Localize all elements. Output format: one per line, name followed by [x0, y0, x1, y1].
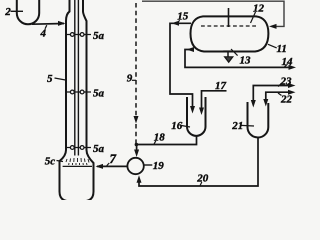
svg-text:5c: 5c — [45, 155, 56, 167]
arrow 15 down into vessel 16 — [190, 106, 195, 114]
label 19 leader — [145, 164, 153, 166]
svg-text:21: 21 — [231, 120, 243, 132]
junction dot — [135, 143, 139, 147]
arrow 14 leftward out of drum — [187, 47, 195, 52]
label 5c leader — [57, 161, 64, 162]
wire line 15 — [170, 23, 193, 109]
label 20 leader — [200, 182, 202, 186]
svg-text:5a: 5a — [93, 143, 105, 155]
svg-text:20: 20 — [196, 173, 209, 185]
arrow feed into drum — [269, 24, 277, 29]
wire line 22 — [266, 92, 292, 102]
wire line 4 — [32, 23, 64, 26]
wire line 18 vertical into pump — [136, 145, 138, 154]
pump circle 19 — [127, 158, 143, 174]
svg-text:12: 12 — [253, 3, 265, 15]
drum liquid level 12 — [201, 25, 257, 27]
label 5 leader — [55, 78, 66, 80]
label 9 leader — [132, 79, 136, 81]
svg-text:23: 23 — [280, 76, 293, 88]
nozzle 5a (middle) — [66, 90, 91, 94]
svg-text:11: 11 — [277, 43, 287, 55]
column inner tube — [75, 0, 79, 156]
arrow 22 right end — [288, 90, 296, 95]
label 7 leader — [107, 163, 109, 166]
svg-text:14: 14 — [282, 56, 294, 68]
arrow line 4 into column — [58, 21, 66, 26]
svg-text:5: 5 — [47, 73, 53, 85]
arrow 23 down into vessel 21 — [251, 100, 256, 108]
svg-text:17: 17 — [215, 80, 227, 92]
vessel 2 — [17, 0, 39, 24]
arrow 23 right end — [288, 83, 296, 88]
wire line 14 — [185, 50, 292, 68]
svg-text:18: 18 — [154, 132, 166, 144]
arrow 20 into pump bottom — [137, 175, 142, 183]
svg-text:2: 2 — [4, 6, 11, 18]
arrowheads — [58, 21, 296, 183]
label 15 leader — [178, 20, 180, 23]
column 5 outer walls — [60, 0, 94, 201]
arrow line 7 into bulb — [96, 164, 104, 169]
svg-text:5a: 5a — [93, 30, 105, 42]
svg-text:9: 9 — [127, 73, 133, 85]
label 4 leader — [45, 25, 47, 29]
label 21 leader — [241, 124, 254, 127]
drum 11 — [191, 16, 269, 51]
nozzle 5a (top) — [66, 33, 91, 37]
svg-text:4: 4 — [40, 28, 47, 40]
feed line top right — [142, 1, 284, 26]
arrow 14 right end — [289, 65, 297, 70]
dashed control line 9 — [135, 3, 137, 117]
spray dots in bulb — [66, 158, 89, 165]
svg-text:19: 19 — [153, 160, 165, 172]
arrow 15 leftward — [172, 21, 180, 26]
bulb liquid level — [63, 165, 92, 167]
arrow 22 down into vessel 21 — [263, 99, 268, 107]
drain symbol 13 — [223, 50, 231, 52]
arrow 17 down into vessel 16 — [199, 108, 204, 116]
vessel 21 — [248, 102, 269, 138]
svg-text:15: 15 — [177, 11, 189, 23]
label 2 leader — [11, 10, 24, 12]
arrow 18 into pump top — [134, 150, 139, 158]
label 13 leader — [231, 49, 238, 56]
wire line 20 — [139, 137, 258, 186]
wire line 18 — [136, 136, 196, 145]
svg-text:13: 13 — [240, 55, 252, 67]
vessel 16 — [187, 97, 206, 136]
label 14 leader — [285, 64, 288, 67]
svg-text:5a: 5a — [93, 88, 105, 100]
label 22 leader — [278, 93, 282, 96]
wire line 23 — [253, 86, 291, 104]
pipe 17 into vessel 16 — [202, 91, 227, 111]
svg-text:7: 7 — [110, 151, 117, 166]
svg-text:16: 16 — [171, 120, 183, 132]
label 11 leader — [268, 44, 277, 48]
label 18 leader — [154, 141, 156, 144]
label 16 leader — [182, 126, 191, 128]
wire line 7 — [97, 165, 127, 167]
arrow dashed 9 mid — [134, 116, 139, 124]
drum dip tube — [228, 8, 230, 27]
svg-text:22: 22 — [280, 94, 293, 106]
label 23 leader — [278, 84, 282, 87]
nozzle 5a (bottom) — [66, 146, 91, 150]
label 12 leader — [251, 12, 256, 23]
